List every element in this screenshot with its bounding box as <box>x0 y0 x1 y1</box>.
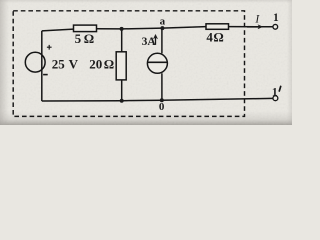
wire: 20-ohm branch lower segment <box>121 80 123 101</box>
wire: bottom return conductor <box>42 98 273 101</box>
svg-text:a: a <box>160 16 166 28</box>
wire: 4-ohm resistor to terminal 1 <box>229 26 274 28</box>
wire: top-left horizontal segment <box>42 29 74 31</box>
resistor R2 20-ohm (box) <box>116 52 126 80</box>
dashed network boundary box <box>13 11 244 117</box>
resistor R3 4-ohm (box) <box>206 24 229 30</box>
voltage source plus terminal mark <box>47 45 52 50</box>
junction dot: node 0 (bottom of current source) <box>160 98 164 102</box>
junction dot: top of 20-ohm branch <box>120 27 124 31</box>
terminal 1 (open circle) <box>273 24 278 29</box>
svg-text:Ω: Ω <box>213 30 223 45</box>
svg-text:20: 20 <box>89 56 102 71</box>
terminal 1-prime (open circle) <box>273 96 278 101</box>
resistor R1 5-ohm (box) <box>74 25 97 32</box>
wire: current-source branch upper segment <box>161 28 163 53</box>
wire: node a to 4-ohm resistor <box>162 27 206 29</box>
wire: 5-ohm resistor to junction of 20-ohm branch <box>97 28 122 30</box>
svg-text:5 Ω: 5 Ω <box>75 31 95 46</box>
current direction arrow for 3A source (points up) <box>153 34 157 44</box>
svg-text:0: 0 <box>159 101 165 113</box>
wire: current-source branch lower segment <box>161 73 163 100</box>
svg-text:Ω: Ω <box>104 56 114 71</box>
wire: 20-ohm branch upper segment <box>121 29 123 52</box>
wire: junction to node a <box>122 27 163 30</box>
current arrow I on output wire (points right) <box>247 25 263 29</box>
svg-text:V: V <box>69 56 79 71</box>
junction dot: node a <box>160 26 164 30</box>
svg-text:1: 1 <box>273 12 279 24</box>
svg-text:25: 25 <box>52 56 65 71</box>
junction dot: bottom of 20-ohm branch <box>120 99 124 103</box>
wire: left vertical branch (voltage source branch) <box>41 31 43 101</box>
current source Is 3A (circle with bar) <box>147 53 167 73</box>
voltage source Us 25V (circle) <box>25 52 45 72</box>
svg-text:4: 4 <box>206 30 213 45</box>
svg-text:3A: 3A <box>142 36 157 48</box>
voltage source minus terminal mark <box>43 74 48 76</box>
svg-text:1: 1 <box>272 87 278 99</box>
